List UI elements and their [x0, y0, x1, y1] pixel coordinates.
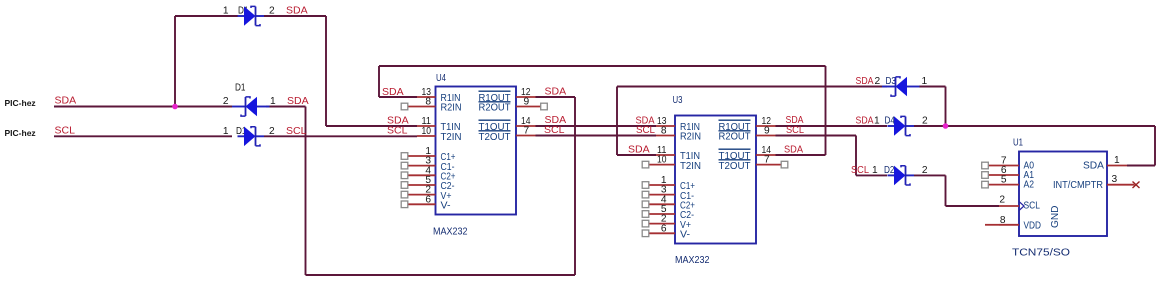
svg-text:8: 8	[661, 126, 667, 137]
svg-text:T2IN: T2IN	[680, 161, 701, 172]
svg-text:1: 1	[872, 165, 878, 176]
svg-text:R2IN: R2IN	[441, 103, 462, 114]
svg-text:D4: D4	[885, 116, 896, 127]
svg-text:D2: D2	[884, 165, 895, 176]
svg-text:2: 2	[999, 195, 1005, 206]
svg-text:SCL: SCL	[387, 124, 408, 136]
svg-text:9: 9	[524, 97, 530, 108]
svg-text:SDA: SDA	[628, 144, 650, 156]
svg-text:7: 7	[524, 126, 530, 137]
svg-text:7: 7	[764, 155, 770, 166]
svg-text:2: 2	[269, 126, 275, 137]
svg-text:SCL: SCL	[636, 124, 655, 136]
svg-text:T2OUT: T2OUT	[479, 132, 511, 143]
svg-text:1: 1	[874, 116, 880, 127]
svg-text:5: 5	[1001, 175, 1007, 186]
svg-text:R2IN: R2IN	[680, 132, 701, 143]
svg-text:U4: U4	[436, 73, 446, 84]
svg-text:6: 6	[661, 223, 667, 234]
svg-text:TCN75/SO: TCN75/SO	[1012, 248, 1070, 259]
svg-text:SDA: SDA	[856, 115, 874, 127]
svg-text:SCL: SCL	[1024, 201, 1041, 212]
svg-text:10: 10	[422, 126, 432, 137]
svg-text:SDA: SDA	[286, 5, 308, 17]
svg-text:10: 10	[657, 155, 667, 166]
svg-text:INT/CMPTR: INT/CMPTR	[1053, 180, 1103, 191]
svg-text:2: 2	[223, 96, 229, 107]
svg-text:1: 1	[223, 126, 229, 137]
svg-text:SCL: SCL	[55, 124, 76, 136]
svg-text:1: 1	[223, 6, 229, 17]
svg-text:D1: D1	[235, 83, 246, 94]
svg-text:MAX232: MAX232	[433, 227, 468, 238]
svg-text:V-: V-	[680, 230, 690, 241]
svg-text:PIC-hez: PIC-hez	[5, 128, 36, 138]
svg-text:A2: A2	[1024, 180, 1035, 191]
svg-text:R2OUT: R2OUT	[479, 103, 511, 114]
svg-text:2: 2	[922, 116, 928, 127]
svg-text:U1: U1	[1013, 138, 1023, 149]
svg-text:SDA: SDA	[382, 86, 404, 98]
svg-text:SCL: SCL	[286, 125, 307, 137]
svg-text:1: 1	[922, 76, 928, 87]
svg-text:U3: U3	[673, 95, 683, 106]
svg-text:T2OUT: T2OUT	[719, 161, 751, 172]
svg-text:3: 3	[1112, 174, 1118, 185]
svg-text:MAX232: MAX232	[675, 255, 710, 266]
svg-text:PIC-hez: PIC-hez	[5, 98, 36, 108]
svg-text:6: 6	[425, 194, 431, 205]
svg-text:2: 2	[269, 6, 275, 17]
svg-text:SCL: SCL	[786, 124, 804, 136]
svg-text:V-: V-	[441, 201, 451, 212]
svg-text:SCL: SCL	[851, 164, 869, 176]
svg-text:T2IN: T2IN	[441, 132, 462, 143]
svg-text:SDA: SDA	[545, 85, 567, 97]
svg-text:8: 8	[425, 97, 431, 108]
svg-text:SDA: SDA	[1083, 160, 1104, 171]
svg-text:SDA: SDA	[287, 95, 309, 107]
svg-text:2: 2	[875, 76, 881, 87]
svg-text:9: 9	[764, 126, 770, 137]
svg-text:SDA: SDA	[55, 94, 77, 106]
svg-text:SCL: SCL	[544, 124, 565, 136]
svg-text:1: 1	[1114, 155, 1120, 166]
svg-text:GND: GND	[1050, 206, 1061, 229]
svg-text:SDA: SDA	[856, 75, 874, 87]
svg-text:VDD: VDD	[1024, 220, 1042, 231]
svg-text:R2OUT: R2OUT	[719, 132, 751, 143]
svg-text:SDA: SDA	[784, 144, 803, 156]
svg-text:2: 2	[922, 165, 928, 176]
svg-text:1: 1	[270, 96, 276, 107]
